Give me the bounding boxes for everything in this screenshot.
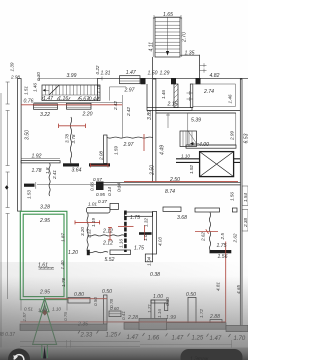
svg-text:2.5: 2.5 bbox=[220, 233, 225, 241]
bottom dim chain ticks bbox=[78, 331, 231, 338]
hatch bar under 1.61 bbox=[39, 267, 55, 269]
svg-text:3.78: 3.78 bbox=[65, 134, 70, 143]
left dim bracket segment 4 bbox=[6, 214, 10, 300]
wavy wall vertical x71 bbox=[70, 117, 71, 163]
red door marker C3 bbox=[75, 220, 100, 224]
J wall vertical bbox=[151, 300, 155, 322]
red door marker C2 bbox=[91, 163, 109, 167]
vertical double wall x103 bbox=[104, 135, 107, 164]
staircase lower treads bbox=[46, 85, 98, 95]
svg-text:1.46: 1.46 bbox=[33, 83, 38, 92]
red boundary bottom line bbox=[20, 321, 225, 323]
svg-text:1.46: 1.46 bbox=[228, 94, 233, 103]
svg-text:1.75: 1.75 bbox=[130, 215, 140, 221]
gray wedge overlay bottom-left bbox=[0, 262, 248, 360]
staircase upper center line with down arrow bbox=[167, 17, 169, 51]
landing right of stairs bbox=[153, 55, 200, 79]
wall below small rooms bbox=[147, 108, 192, 111]
svg-text:1.47: 1.47 bbox=[126, 70, 136, 76]
svg-text:2.62: 2.62 bbox=[201, 232, 206, 242]
svg-text:1.54: 1.54 bbox=[243, 193, 248, 202]
svg-text:1.75: 1.75 bbox=[217, 243, 227, 249]
faint understreet line 1 bbox=[20, 341, 140, 343]
room corner right of stairs bbox=[110, 87, 127, 101]
svg-text:2.20: 2.20 bbox=[82, 112, 93, 118]
red boundary top line bbox=[21, 104, 122, 106]
green highlighted room outer bbox=[20, 211, 67, 299]
tree brown marker bbox=[42, 310, 47, 316]
svg-text:1.31: 1.31 bbox=[101, 70, 111, 76]
line below stairs bbox=[34, 101, 123, 103]
small staircase mid bbox=[180, 131, 197, 147]
green tree top triangle bbox=[40, 298, 49, 311]
gray footing bar left bbox=[20, 324, 107, 330]
bottom UI bar bbox=[0, 348, 248, 360]
wall y110 bbox=[156, 110, 240, 113]
svg-text:5.39: 5.39 bbox=[191, 118, 201, 124]
tree dark arrow bbox=[43, 345, 46, 359]
mid main wall 8.74 red top line bbox=[124, 181, 238, 183]
svg-text:1.16: 1.16 bbox=[119, 239, 124, 248]
stair side dim line right bbox=[181, 17, 183, 57]
elevator lobby slab bar bbox=[176, 159, 240, 163]
T wall bottom step bbox=[145, 254, 152, 262]
wavy partition wall right x210 bbox=[209, 212, 210, 249]
svg-text:1.35: 1.35 bbox=[185, 51, 195, 57]
svg-text:1.92: 1.92 bbox=[189, 165, 194, 174]
top bar room row 4 bbox=[232, 208, 237, 212]
tree trunk lines bbox=[42, 344, 48, 360]
red door marker C4 bbox=[108, 227, 112, 240]
svg-text:3.20: 3.20 bbox=[80, 227, 85, 236]
cap bar right segment bbox=[89, 163, 110, 166]
door tick marks right of landing bbox=[200, 63, 207, 72]
rotate view icon arrow bbox=[14, 355, 24, 360]
top bar room row 1 bbox=[125, 212, 153, 216]
left dim bracket segment 2 bbox=[6, 111, 10, 166]
right margin box 1 bbox=[242, 186, 248, 206]
svg-text:1.92: 1.92 bbox=[32, 154, 42, 160]
dim leader x168 bbox=[166, 113, 170, 128]
small box bottom right bbox=[210, 320, 222, 326]
svg-text:1.78: 1.78 bbox=[32, 168, 42, 174]
gray footing bar center bbox=[124, 323, 226, 330]
window beam 2.20 bbox=[67, 103, 92, 109]
gray gradient overlay bottom bbox=[0, 276, 248, 360]
rounded bar left room bbox=[87, 207, 111, 213]
J wall top bar bbox=[151, 300, 168, 303]
svg-text:4.00: 4.00 bbox=[199, 142, 209, 148]
bottom-right white bar bbox=[188, 297, 196, 325]
top main wall bbox=[98, 77, 248, 79]
wall pier 2 bbox=[171, 78, 176, 84]
beam 2.20 inner lines bbox=[67, 105, 92, 107]
white bar at room bottom bbox=[110, 250, 131, 255]
wall y145 bbox=[186, 145, 236, 148]
svg-text:8.74: 8.74 bbox=[165, 189, 175, 195]
red boundary right vertical bbox=[225, 242, 227, 322]
staircase lower break line bbox=[49, 85, 59, 95]
left dim bracket segment 3 bbox=[6, 172, 10, 208]
svg-text:2.98: 2.98 bbox=[10, 75, 20, 80]
staircase lower flight box bbox=[42, 85, 100, 101]
svg-text:1.53: 1.53 bbox=[27, 190, 32, 199]
faint ghost lines right bbox=[140, 340, 232, 348]
svg-text:2.70: 2.70 bbox=[182, 32, 188, 43]
wavy wall bottom y252 bbox=[88, 252, 108, 253]
svg-text:2.41: 2.41 bbox=[52, 170, 57, 180]
svg-text:1.05: 1.05 bbox=[143, 232, 148, 241]
svg-text:4.49: 4.49 bbox=[160, 145, 166, 155]
green tree big triangle bbox=[33, 305, 57, 345]
bottom vertical double wall x103 bbox=[104, 295, 107, 324]
svg-text:0.14: 0.14 bbox=[117, 183, 122, 192]
left edge dimension extension line bbox=[0, 93, 2, 360]
wall pier 3 bbox=[196, 78, 201, 84]
tree trunk over bar bbox=[42, 348, 48, 359]
red line under green room bbox=[44, 298, 107, 300]
svg-text:2.95: 2.95 bbox=[39, 218, 50, 224]
svg-text:0.57: 0.57 bbox=[93, 177, 102, 182]
svg-text:1.65: 1.65 bbox=[163, 12, 173, 18]
mid main wall 8.74 bbox=[96, 182, 241, 185]
stair label row ticks bbox=[42, 97, 100, 100]
svg-text:6.53: 6.53 bbox=[244, 133, 249, 143]
vertical double wall x190 bbox=[190, 84, 193, 108]
window hatch in top wall bbox=[120, 76, 141, 84]
svg-text:2.12: 2.12 bbox=[102, 229, 113, 235]
hatched partition wall bbox=[174, 84, 178, 108]
svg-text:1.10: 1.10 bbox=[181, 154, 190, 159]
svg-text:2.62: 2.62 bbox=[233, 233, 238, 243]
svg-text:1.20: 1.20 bbox=[68, 250, 78, 256]
svg-text:2.15: 2.15 bbox=[167, 102, 178, 108]
svg-text:1.29: 1.29 bbox=[160, 70, 170, 76]
faint understreet line 3 bbox=[20, 350, 123, 352]
svg-text:2.42: 2.42 bbox=[126, 107, 131, 117]
svg-text:1.19: 1.19 bbox=[91, 218, 96, 227]
red tick on wavy wall bbox=[143, 134, 145, 151]
svg-text:3.28: 3.28 bbox=[40, 205, 50, 211]
stairwell core wall bbox=[153, 79, 156, 182]
svg-text:0.37: 0.37 bbox=[98, 199, 107, 204]
dim line 1.65 bbox=[154, 15, 181, 19]
dim line 3.99 bbox=[39, 76, 102, 80]
svg-text:1.56: 1.56 bbox=[230, 192, 235, 201]
tree arrow over bar bbox=[43, 346, 46, 359]
faint understreet line 2 bbox=[20, 345, 140, 347]
left wall stub bar bbox=[24, 184, 35, 187]
svg-text:2.12: 2.12 bbox=[102, 241, 113, 247]
svg-text:2.74: 2.74 bbox=[203, 89, 214, 95]
left mid wall 1.92 bbox=[21, 161, 60, 163]
thin line from stub to pier bbox=[37, 184, 119, 190]
dark wall below wavy right bbox=[210, 250, 232, 253]
wavy horizontal y137 bbox=[107, 137, 153, 138]
stair side dim line left bbox=[152, 17, 154, 57]
svg-text:3.22: 3.22 bbox=[40, 112, 50, 118]
wavy wall vertical x87 bbox=[87, 213, 88, 252]
porch bump bbox=[139, 318, 167, 329]
staircase upper flight box bbox=[155, 17, 180, 57]
left bracket diamond marker bbox=[5, 185, 9, 189]
svg-text:2.50: 2.50 bbox=[169, 177, 180, 183]
svg-text:3.50: 3.50 bbox=[25, 130, 31, 140]
rotate view icon disc bbox=[8, 349, 30, 360]
svg-text:1.46: 1.46 bbox=[161, 90, 166, 99]
svg-text:3.99: 3.99 bbox=[67, 73, 77, 79]
svg-text:1.50: 1.50 bbox=[148, 71, 158, 77]
room 5.39 box bbox=[188, 113, 236, 145]
red door marker C5 bbox=[139, 232, 152, 235]
svg-text:2.99: 2.99 bbox=[230, 131, 235, 141]
window beam 3.22 bbox=[34, 104, 58, 110]
faint vertical pair bbox=[67, 340, 71, 360]
wavy wall horizontal y235 bbox=[88, 235, 125, 236]
svg-text:1.75: 1.75 bbox=[134, 246, 144, 252]
gray footing bar right bbox=[226, 325, 248, 331]
plan background bbox=[0, 0, 248, 360]
top bar room row 2 bbox=[163, 207, 181, 211]
wall drop at x97 bbox=[97, 78, 99, 100]
svg-text:4.11: 4.11 bbox=[149, 42, 155, 52]
svg-text:0.95: 0.95 bbox=[96, 192, 105, 197]
svg-text:1.87: 1.87 bbox=[61, 233, 66, 242]
bottom-left white bar 0.80 bbox=[68, 298, 90, 303]
room 2.74 box bbox=[193, 84, 236, 107]
svg-text:4.82: 4.82 bbox=[210, 73, 220, 79]
svg-text:1 Этаж: 1 Этаж bbox=[190, 357, 209, 360]
svg-text:0.30: 0.30 bbox=[36, 72, 41, 81]
svg-text:1.18: 1.18 bbox=[96, 84, 101, 93]
zigzag wall below 1.78 bbox=[49, 163, 50, 196]
cap bar below wavy x71 bbox=[63, 163, 79, 166]
small staircase arrow bbox=[191, 143, 200, 145]
svg-text:1.32: 1.32 bbox=[144, 218, 149, 227]
svg-text:2.08: 2.08 bbox=[99, 151, 104, 161]
svg-text:3.78: 3.78 bbox=[71, 134, 76, 143]
svg-text:0.22: 0.22 bbox=[95, 65, 100, 74]
svg-text:0.44: 0.44 bbox=[89, 96, 99, 102]
left dim bracket segment 1 bbox=[6, 82, 10, 104]
red door marker C6 bbox=[195, 229, 218, 233]
svg-text:0.76: 0.76 bbox=[24, 98, 34, 104]
staircase lower mid line bbox=[42, 94, 100, 96]
dim line 1.92 bbox=[21, 158, 60, 160]
svg-text:1.01: 1.01 bbox=[88, 202, 97, 207]
J wall right vertical bbox=[165, 303, 168, 311]
elevator shaft box with X bbox=[200, 152, 234, 177]
green highlighted room inner bbox=[23, 214, 64, 296]
floor selector pill button bbox=[181, 349, 243, 360]
svg-text:3.89: 3.89 bbox=[147, 110, 153, 120]
svg-text:2.50: 2.50 bbox=[150, 165, 156, 176]
red door marker C1 bbox=[59, 124, 86, 128]
svg-text:0.14: 0.14 bbox=[107, 187, 112, 196]
svg-text:5.67: 5.67 bbox=[79, 96, 89, 102]
svg-text:2.97: 2.97 bbox=[123, 142, 134, 148]
dark corner L bbox=[87, 250, 90, 255]
svg-text:1.56: 1.56 bbox=[218, 254, 228, 260]
mid wall pier 0.57 bbox=[96, 182, 104, 191]
svg-text:2.42: 2.42 bbox=[113, 101, 118, 111]
T wall vertical bbox=[153, 211, 157, 254]
top bar room row 3 bbox=[195, 208, 220, 212]
step rect above bar bbox=[110, 203, 119, 209]
svg-text:3.64: 3.64 bbox=[72, 168, 82, 174]
svg-text:2.97: 2.97 bbox=[124, 88, 135, 94]
svg-text:2.38: 2.38 bbox=[243, 218, 248, 228]
svg-text:3.32: 3.32 bbox=[87, 229, 92, 238]
room partition vertical x147 bbox=[146, 84, 148, 108]
svg-text:1.59: 1.59 bbox=[114, 146, 119, 155]
left wall stub tick bbox=[35, 182, 37, 189]
beam 3.22 inner lines bbox=[34, 106, 58, 108]
staircase upper treads bbox=[155, 22, 180, 53]
svg-text:3.68: 3.68 bbox=[177, 215, 187, 221]
staircase lower arrow bbox=[43, 89, 49, 91]
svg-text:4.03: 4.03 bbox=[158, 237, 163, 246]
step rects 0.60 bbox=[109, 311, 121, 317]
right margin box 2 bbox=[242, 210, 248, 232]
svg-text:0.66: 0.66 bbox=[90, 182, 95, 191]
thin vertical dim line x122 bbox=[121, 95, 123, 138]
blocky dark wall x125 bbox=[124, 211, 127, 253]
door marks room 2.74 bbox=[187, 91, 193, 101]
svg-text:1.16: 1.16 bbox=[58, 96, 68, 102]
svg-text:1.47: 1.47 bbox=[43, 96, 53, 102]
dim ticks below green room bbox=[21, 300, 67, 311]
svg-text:1.51: 1.51 bbox=[24, 86, 29, 95]
left outer wall bbox=[18, 79, 22, 212]
svg-text:1.8: 1.8 bbox=[45, 167, 50, 174]
svg-text:1.39: 1.39 bbox=[10, 62, 15, 71]
right outer wall bbox=[240, 79, 242, 332]
wall pier 1 bbox=[141, 78, 146, 84]
